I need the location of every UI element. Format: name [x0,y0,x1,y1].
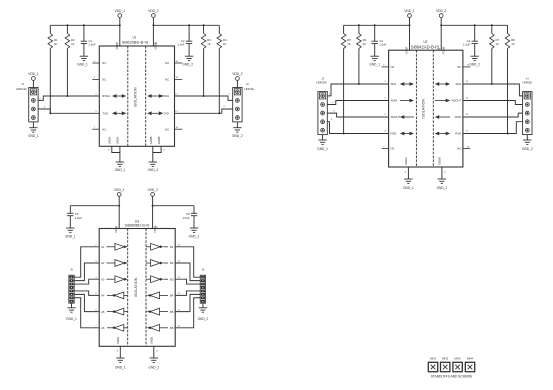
svg-text:VDD_1: VDD_1 [28,72,39,76]
svg-text:2: 2 [95,245,97,247]
svg-text:GND_1: GND_1 [115,365,126,369]
svg-text:NC: NC [165,127,169,131]
svg-text:ADIN: ADIN [391,99,398,103]
svg-text:13: 13 [466,98,469,100]
svg-text:VDD_2: VDD_2 [232,72,243,76]
svg-text:2: 2 [332,102,334,104]
svg-text:3: 3 [333,111,335,113]
svg-text:GND_1: GND_1 [77,63,88,67]
svg-text:VDD1: VDD1 [114,225,118,233]
svg-text:9: 9 [163,150,165,152]
svg-text:1.0uF: 1.0uF [177,42,184,46]
svg-text:GND_1: GND_1 [317,147,328,151]
svg-text:SDA: SDA [391,82,397,86]
svg-text:12: 12 [175,111,178,113]
svg-text:1.0uF: 1.0uF [379,42,386,46]
svg-text:2: 2 [94,61,96,63]
svg-text:J2: J2 [246,82,249,86]
svg-text:1K: 1K [71,42,75,46]
svg-text:3: 3 [95,93,97,95]
svg-text:GND_1: GND_1 [28,134,39,138]
svg-text:Si8660BD-B-IS: Si8660BD-B-IS [124,223,150,227]
svg-text:B1: B1 [170,245,174,249]
svg-text:HDR1E: HDR1E [245,87,255,91]
svg-text:4: 4 [384,98,386,100]
svg-text:NC: NC [165,61,169,65]
svg-text:7: 7 [383,146,385,148]
svg-text:NC: NC [457,65,461,69]
svg-text:10: 10 [467,146,470,148]
svg-text:GND_2: GND_2 [198,317,209,321]
svg-text:3: 3 [223,106,225,108]
svg-text:GNDA: GNDA [116,136,120,144]
svg-text:11: 11 [466,131,469,133]
svg-text:ISOLATION: ISOLATION [421,98,425,118]
svg-text:NC: NC [102,78,106,82]
svg-text:A4: A4 [101,294,105,298]
svg-text:2: 2 [39,98,41,100]
svg-text:A2: A2 [101,261,105,265]
svg-text:ADIN: ADIN [455,115,462,119]
svg-text:1.0uF: 1.0uF [463,42,470,46]
svg-text:6: 6 [384,131,386,133]
svg-text:1K: 1K [511,42,515,46]
svg-text:VDDB: VDDB [154,42,158,50]
svg-text:J6: J6 [202,268,205,272]
svg-text:1K: 1K [207,42,211,46]
svg-text:STANDOFFS AND SCREWS: STANDOFFS AND SCREWS [431,375,472,379]
svg-text:VDDB: VDDB [441,47,445,55]
svg-text:1K: 1K [223,42,227,46]
svg-text:12: 12 [466,114,469,116]
svg-text:1: 1 [329,93,331,95]
svg-text:1K: 1K [54,42,58,46]
svg-text:RXD: RXD [455,132,461,136]
svg-text:14: 14 [175,93,178,95]
svg-text:1.0uF: 1.0uF [88,42,95,46]
svg-text:ISOLATION: ISOLATION [134,87,138,107]
svg-text:4: 4 [95,277,97,279]
svg-text:B3: B3 [170,277,174,281]
svg-text:VDD_2: VDD_2 [148,9,159,13]
svg-text:15: 15 [177,245,180,247]
svg-text:8: 8 [108,150,110,152]
svg-text:10: 10 [176,127,179,129]
svg-text:MH1: MH1 [430,356,436,360]
svg-text:2: 2 [383,65,385,67]
svg-text:14: 14 [176,77,179,79]
svg-text:ADOUT: ADOUT [452,99,462,103]
svg-text:B2: B2 [170,261,174,265]
svg-text:NC: NC [165,78,169,82]
svg-text:VDD_2: VDD_2 [436,9,447,13]
svg-text:MH3: MH3 [455,356,461,360]
svg-text:Si8642AD-B-IS: Si8642AD-B-IS [411,44,440,49]
svg-text:A5: A5 [101,310,105,314]
svg-text:VDDA: VDDA [115,42,119,50]
svg-text:5: 5 [384,114,386,116]
svg-text:HDR2W: HDR2W [316,80,327,84]
svg-text:TXD: TXD [163,112,169,116]
svg-text:GND_1: GND_1 [66,317,77,321]
svg-text:GND_1: GND_1 [369,63,380,67]
svg-text:7: 7 [94,127,96,129]
svg-text:GND_1: GND_1 [403,186,414,190]
svg-text:1K: 1K [496,42,500,46]
svg-text:3: 3 [95,261,97,263]
svg-text:3: 3 [44,107,46,109]
svg-text:13: 13 [177,277,180,279]
svg-text:GND2: GND2 [150,336,154,344]
svg-text:SDA: SDA [456,82,462,86]
svg-text:11: 11 [178,309,181,311]
svg-text:Si8620BD-B-IS: Si8620BD-B-IS [122,39,149,44]
svg-text:GND_2: GND_2 [147,168,158,172]
svg-text:RXD: RXD [391,132,397,136]
svg-text:A1: A1 [101,245,105,249]
svg-text:3: 3 [384,81,386,83]
svg-text:1K: 1K [363,42,367,46]
svg-text:GNDB: GNDB [149,136,153,144]
svg-text:GND_2: GND_2 [189,235,200,239]
svg-text:GND_2: GND_2 [522,147,533,151]
svg-text:MH4: MH4 [467,356,473,360]
svg-text:J5: J5 [70,268,73,272]
svg-text:GND1: GND1 [116,336,120,344]
svg-text:3: 3 [94,77,96,79]
svg-text:15: 15 [176,61,179,63]
svg-text:VDD_1: VDD_1 [404,9,415,13]
svg-text:NC: NC [102,61,106,65]
svg-text:TXD: TXD [102,112,108,116]
svg-text:VDD2: VDD2 [153,225,157,233]
svg-text:RXDA: RXDA [102,94,110,98]
svg-text:5: 5 [95,111,97,113]
svg-text:HDR1W: HDR1W [16,87,27,91]
svg-text:VDD_1: VDD_1 [115,9,126,13]
svg-text:GND_1: GND_1 [115,168,126,172]
svg-text:GND_2: GND_2 [148,365,159,369]
svg-text:1.0uF: 1.0uF [75,216,82,220]
svg-text:A3: A3 [101,277,105,281]
svg-text:14: 14 [177,261,180,263]
svg-text:1.0uF: 1.0uF [182,216,189,220]
svg-text:14: 14 [466,81,469,83]
svg-text:GND_2: GND_2 [437,186,448,190]
svg-text:GNDB: GNDB [438,157,442,165]
svg-text:8: 8 [117,351,119,353]
svg-text:GNDA: GNDA [404,157,408,165]
svg-text:7: 7 [95,326,97,328]
svg-text:NC: NC [391,147,395,151]
svg-text:MH2: MH2 [442,356,448,360]
svg-text:NC: NC [102,127,106,131]
svg-text:J1: J1 [21,82,24,86]
svg-text:B4: B4 [170,294,174,298]
svg-text:5: 5 [95,293,97,295]
svg-text:GND_1: GND_1 [65,235,76,239]
svg-text:VDDA: VDDA [405,47,409,55]
svg-text:GNDA: GNDA [108,136,112,144]
svg-text:NC: NC [391,65,395,69]
svg-text:VDD_1: VDD_1 [114,188,125,192]
svg-text:B6: B6 [170,326,174,330]
svg-text:ISOLATION: ISOLATION [134,277,138,297]
svg-text:HDR2E: HDR2E [523,80,533,84]
svg-text:NC: NC [457,147,461,151]
svg-text:B5: B5 [170,310,174,314]
svg-text:GND_2: GND_2 [182,63,193,67]
svg-text:GNDB: GNDB [157,136,161,144]
svg-text:6: 6 [95,309,97,311]
svg-text:8: 8 [405,172,407,174]
svg-text:12: 12 [177,293,180,295]
svg-text:GND_2: GND_2 [232,134,243,138]
svg-text:VDD_2: VDD_2 [147,188,158,192]
svg-text:10: 10 [177,326,180,328]
svg-text:2: 2 [229,93,231,95]
svg-text:1K: 1K [347,42,351,46]
svg-text:ADOUT: ADOUT [391,115,401,119]
svg-text:GND_2: GND_2 [469,63,480,67]
svg-text:9: 9 [156,351,158,353]
svg-text:A6: A6 [101,326,105,330]
svg-text:U2: U2 [423,40,427,44]
svg-text:9: 9 [444,172,446,174]
svg-text:4: 4 [331,119,333,121]
